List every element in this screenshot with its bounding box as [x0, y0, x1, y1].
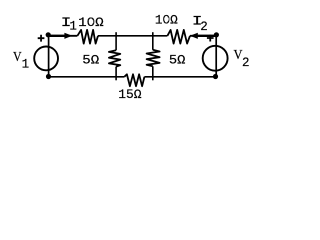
svg-text:2: 2: [200, 20, 208, 34]
svg-text:15Ω: 15Ω: [118, 87, 141, 102]
svg-text:V: V: [13, 49, 22, 64]
svg-text:5Ω: 5Ω: [82, 52, 99, 67]
svg-text:1: 1: [22, 58, 30, 72]
svg-text:5Ω: 5Ω: [169, 52, 186, 67]
svg-text:2: 2: [242, 56, 250, 70]
svg-text:1: 1: [69, 20, 77, 34]
